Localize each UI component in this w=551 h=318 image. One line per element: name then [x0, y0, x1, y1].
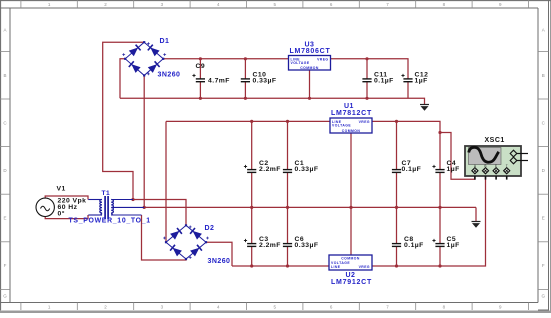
- wire: C6 leads: [287, 207, 289, 266]
- label C10 refdes and value: [253, 71, 277, 84]
- node: C8 bottom junction: [395, 264, 398, 267]
- capacitor C2: [244, 165, 256, 173]
- diode bridge D2: [163, 224, 209, 260]
- capacitor C9: [192, 74, 205, 82]
- label V1 refdes: [57, 186, 66, 193]
- node: junction +12V branch: [438, 131, 441, 134]
- capacitor C3: [244, 239, 256, 247]
- wire: U1 output rail to C7/C4 and corner down: [372, 121, 440, 169]
- wire: C10 leads: [244, 59, 246, 99]
- label C11 refdes and value: [374, 71, 394, 84]
- label C7 refdes and value: [402, 160, 422, 173]
- wire: U3 output rail to C11/C12: [331, 59, 409, 79]
- label V1 value 220 Vpk / 60 Hz / 0deg: [58, 198, 87, 218]
- label D1 refdes: [160, 38, 170, 45]
- svg-text:VOLTAGE: VOLTAGE: [332, 124, 351, 128]
- svg-text:T: T: [506, 164, 508, 168]
- svg-text:LINE: LINE: [331, 265, 341, 269]
- node: C2 junctions: [250, 120, 253, 209]
- capacitor C8: [392, 244, 401, 247]
- wire: T1 secondary bottom pin down and across to D2 bottom vertex: [142, 215, 187, 260]
- svg-text:G: G: [541, 294, 545, 299]
- label C6 refdes and value: [295, 236, 319, 249]
- wire: D2 left (+) vertex up to U1 input rail: [165, 121, 167, 242]
- svg-text:2.2mF: 2.2mF: [259, 242, 281, 249]
- wire: C3 leads: [251, 207, 253, 266]
- svg-text:0°: 0°: [58, 210, 65, 218]
- transformer T1: [88, 196, 144, 219]
- voltage regulator U2 LM7912CT: [329, 255, 372, 270]
- wire: C8 leads: [396, 207, 398, 266]
- wire: D1 left (-) vertex down to 6V common rail: [120, 59, 125, 99]
- svg-text:0.33µF: 0.33µF: [295, 242, 319, 249]
- wire: ground rail stub to ground symbol 2: [475, 207, 477, 221]
- capacitor C12: [401, 74, 412, 82]
- label C1 refdes and value: [295, 160, 319, 173]
- label U2 part LM7912CT: [331, 279, 372, 286]
- wire: T1 secondary top pin across to D2 top vertex: [133, 200, 186, 226]
- capacitor C10: [241, 79, 250, 82]
- svg-text:COMMON: COMMON: [342, 129, 361, 133]
- wire: D2 right (-) vertex down to -12V rail: [206, 242, 232, 266]
- label D2 part 3N260: [208, 258, 231, 265]
- node: C1 junctions: [286, 120, 289, 209]
- wire: C11 leads: [366, 59, 368, 99]
- ground symbol (6V section): [420, 105, 429, 111]
- svg-text:3N260: 3N260: [208, 258, 231, 265]
- node: junction centre tap / D1 AC2: [143, 206, 146, 209]
- svg-text:A: A: [542, 27, 545, 32]
- svg-text:COMMON: COMMON: [341, 257, 360, 261]
- svg-text:TS_POWER_10_TO_1: TS_POWER_10_TO_1: [69, 217, 151, 224]
- svg-text:0.33µF: 0.33µF: [253, 77, 277, 84]
- svg-text:C9: C9: [196, 63, 206, 70]
- wire: D1 top vertex to T1 secondary top (AC1 path): [103, 42, 145, 199]
- wire: 6V section bottom rail y=98 to ground: [120, 98, 425, 104]
- label C2 refdes and value: [259, 160, 281, 173]
- label T1 part TS_POWER_10_TO_1: [69, 217, 151, 224]
- wire: +12V branch to scope input A: [440, 133, 475, 180]
- svg-text:0.1µF: 0.1µF: [402, 166, 422, 173]
- svg-text:F: F: [542, 263, 545, 268]
- node: C6 bottom junction: [286, 264, 289, 267]
- label D1 part 3N260: [158, 72, 181, 79]
- voltage regulator U3 LM7806CT: [289, 56, 331, 71]
- svg-text:VREG: VREG: [359, 120, 370, 124]
- svg-text:1µF: 1µF: [447, 166, 460, 173]
- capacitor C7: [392, 170, 401, 173]
- svg-text:E: E: [542, 216, 545, 221]
- wire: +12V rail y=121, D2 to U1 input: [166, 120, 330, 122]
- node: C7 junctions: [395, 120, 398, 209]
- svg-text:T1: T1: [102, 190, 111, 197]
- wire: U3 COMMON pin to 6V common rail: [309, 70, 311, 98]
- capacitor C6: [283, 244, 292, 247]
- svg-text:U2: U2: [346, 272, 356, 279]
- label U3 refdes: [305, 42, 315, 49]
- node: U1/U2 common junction: [349, 206, 352, 209]
- svg-text:F: F: [4, 263, 7, 268]
- svg-text:2.2mF: 2.2mF: [259, 166, 281, 173]
- wire: V1 bottom to T1 primary bottom: [45, 215, 88, 219]
- node: C3 bottom junction: [250, 264, 253, 267]
- svg-text:COMMON: COMMON: [300, 66, 319, 70]
- svg-text:3N260: 3N260: [158, 72, 181, 79]
- svg-text:E: E: [495, 164, 497, 168]
- svg-text:G: G: [3, 294, 7, 299]
- svg-text:1µF: 1µF: [447, 242, 460, 249]
- wire: ground rail (centre tap) y=207: [144, 206, 476, 208]
- label U3 part LM7806CT: [290, 48, 331, 55]
- node: C11 junctions: [365, 57, 368, 100]
- diode bridge D1: [122, 41, 166, 76]
- svg-text:VREG: VREG: [317, 58, 328, 62]
- svg-text:V1: V1: [57, 186, 66, 193]
- label C3 refdes and value: [259, 236, 281, 249]
- wire: -12V rail y=266 to U2 input: [232, 265, 329, 267]
- label U2 refdes: [346, 272, 356, 279]
- capacitor C4: [432, 165, 444, 173]
- voltage regulator U1 LM7812CT: [330, 118, 372, 133]
- wire: U2 output rail to scope input B: [372, 177, 486, 267]
- wire: U2 COMMON pin up to ground rail: [350, 207, 352, 255]
- label XSC1 refdes: [485, 137, 505, 144]
- svg-text:4.7mF: 4.7mF: [208, 78, 230, 85]
- wire: D1 right (+) vertex to U3 input, rail y=57.8: [163, 58, 288, 60]
- node: C5 bottom junction: [438, 264, 441, 267]
- label C9 value 4.7mF: [208, 78, 230, 85]
- wire: C1 leads: [287, 121, 289, 207]
- label C5 refdes and value: [447, 236, 460, 249]
- svg-text:B: B: [3, 73, 6, 78]
- wire: C5 leads: [439, 207, 441, 266]
- node: U3 common junction: [308, 97, 311, 100]
- svg-text:D2: D2: [205, 225, 215, 232]
- svg-text:0.1µF: 0.1µF: [404, 242, 424, 249]
- svg-text:E: E: [3, 216, 6, 221]
- label C9 refdes: [196, 63, 206, 70]
- AC source V1: [36, 198, 54, 216]
- capacitor C5: [432, 239, 444, 247]
- wire: U1 COMMON pin down to ground rail: [350, 133, 352, 207]
- svg-text:1µF: 1µF: [415, 77, 428, 84]
- svg-text:XSC1: XSC1: [485, 137, 505, 144]
- svg-text:D1: D1: [160, 38, 170, 45]
- node: C9 junctions: [199, 57, 202, 100]
- ground symbol (centre tap rail): [472, 222, 481, 228]
- node: C4 bottom junction: [438, 206, 441, 209]
- wire: D1 bottom vertex down to centre-tap rail: [143, 75, 145, 207]
- wire: C4 bottom lead: [439, 172, 441, 207]
- svg-text:0.33µF: 0.33µF: [295, 166, 319, 173]
- wire: C12 bottom lead: [407, 82, 409, 99]
- label C4 refdes and value: [447, 160, 460, 173]
- wire: C9 leads: [199, 59, 201, 99]
- svg-text:VOLTAGE: VOLTAGE: [291, 61, 310, 65]
- label T1 refdes: [102, 190, 111, 197]
- label D2 refdes: [205, 225, 215, 232]
- svg-text:B: B: [542, 73, 545, 78]
- svg-text:VREG: VREG: [359, 265, 370, 269]
- capacitor C11: [362, 79, 371, 82]
- capacitor C1: [283, 170, 292, 173]
- label C12 refdes and value: [415, 71, 429, 84]
- label U1 refdes: [344, 103, 354, 110]
- svg-text:LM7806CT: LM7806CT: [290, 48, 331, 55]
- wire: C7 leads: [396, 121, 398, 207]
- svg-text:B: B: [484, 164, 486, 168]
- label U1 part LM7812CT: [331, 110, 372, 117]
- node: junction T1 secondary top / D1 AC1 / D2 AC1: [131, 198, 134, 201]
- svg-text:LM7812CT: LM7812CT: [331, 110, 372, 117]
- svg-text:LM7912CT: LM7912CT: [331, 279, 372, 286]
- wire: C2 leads: [251, 121, 253, 207]
- wire: V1 top to T1 primary top: [45, 196, 88, 200]
- oscilloscope XSC1: [465, 146, 528, 180]
- svg-text:A: A: [3, 27, 6, 32]
- svg-text:0.1µF: 0.1µF: [374, 77, 394, 84]
- node: C10 junctions: [244, 57, 247, 100]
- label C8 refdes and value: [404, 236, 424, 249]
- svg-text:U1: U1: [344, 103, 354, 110]
